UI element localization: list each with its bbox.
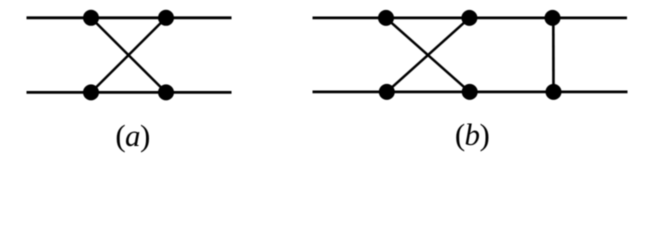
diagram (b) vertical edge column 3 bbox=[552, 18, 555, 92]
diagram (a) cross edge top-left to bottom-right bbox=[91, 18, 166, 93]
svg-text:(b): (b) bbox=[455, 117, 489, 152]
node b4 bottom-1 bbox=[379, 84, 395, 100]
node b2 top-2 bbox=[461, 10, 477, 26]
node a1 top-left bbox=[83, 10, 99, 26]
diagram (b) cross edge top-1 to bottom-2 bbox=[386, 18, 470, 92]
node a2 top-right bbox=[158, 10, 174, 26]
node a3 bottom-left bbox=[83, 84, 99, 100]
node b6 bottom-3 bbox=[546, 84, 562, 100]
diagram (a) top wire bbox=[27, 16, 232, 19]
diagram (a) cross edge top-right to bottom-left bbox=[91, 18, 166, 93]
node b3 top-3 bbox=[545, 10, 561, 26]
node a4 bottom-right bbox=[158, 84, 174, 100]
diagram (b) top wire bbox=[313, 16, 628, 19]
diagram (b) bottom wire bbox=[313, 91, 628, 94]
diagram (b) cross edge top-2 to bottom-1 bbox=[387, 18, 470, 92]
diagram (a) bottom wire bbox=[27, 91, 232, 94]
node b5 bottom-2 bbox=[462, 84, 478, 100]
node b1 top-1 bbox=[378, 10, 394, 26]
svg-text:(a): (a) bbox=[115, 118, 149, 153]
